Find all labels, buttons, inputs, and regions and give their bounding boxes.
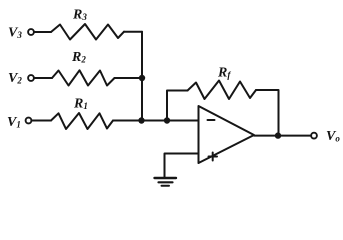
svg-text:V3: V3 xyxy=(8,26,22,41)
svg-text:R3: R3 xyxy=(72,8,87,23)
node output xyxy=(275,132,281,138)
terminal V3 xyxy=(28,29,34,35)
node junction V2 xyxy=(139,75,145,81)
terminal V1 xyxy=(26,118,32,124)
resistor R3 xyxy=(51,24,124,40)
terminal Vo xyxy=(311,133,317,139)
wire xyxy=(115,77,143,79)
svg-text:Rf: Rf xyxy=(217,66,231,81)
pin minus xyxy=(208,119,215,121)
svg-text:V2: V2 xyxy=(8,71,22,86)
wire xyxy=(167,91,188,121)
ground xyxy=(155,177,177,179)
wire xyxy=(113,120,199,122)
svg-text:Vo: Vo xyxy=(326,129,340,144)
wire bus xyxy=(141,32,143,121)
resistor R1 xyxy=(51,113,113,129)
svg-text:R1: R1 xyxy=(73,97,88,112)
pin plus xyxy=(209,153,218,161)
wire xyxy=(34,77,52,79)
wire xyxy=(124,31,142,33)
resistor Rf xyxy=(188,81,257,100)
terminal V2 xyxy=(28,75,34,81)
wire xyxy=(254,135,311,137)
wire xyxy=(165,154,199,178)
wire xyxy=(34,31,51,33)
svg-text:R2: R2 xyxy=(71,50,86,65)
node junction V1 xyxy=(138,117,144,123)
wire xyxy=(256,90,279,136)
svg-text:V1: V1 xyxy=(7,115,21,130)
wire xyxy=(32,120,52,122)
op-amp U1 xyxy=(199,106,255,163)
node junction feedback xyxy=(164,117,170,123)
resistor R2 xyxy=(52,70,115,85)
